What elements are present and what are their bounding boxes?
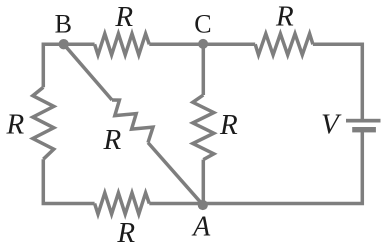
- battery V: long plate (top): [346, 119, 381, 123]
- node A (junction dot): [198, 200, 208, 210]
- node B (junction dot): [59, 39, 69, 49]
- resistor R (bottom branch): [95, 193, 150, 214]
- battery V: short thick plate (bottom): [352, 127, 376, 132]
- svg-text:R: R: [219, 109, 238, 141]
- svg-text:C: C: [194, 10, 211, 39]
- resistor R (left branch): [33, 87, 54, 159]
- svg-text:B: B: [55, 10, 72, 39]
- resistor R (diagonal branch, B to A): [112, 100, 153, 143]
- resistor R (top-left, between B and C): [95, 34, 150, 55]
- wire: bottom rail from node A to bottom-right corner, up to battery: [203, 131, 362, 204]
- svg-text:V: V: [321, 108, 342, 140]
- wire: top-right corner down to battery top plate: [313, 44, 362, 119]
- wire: node C to top-right resistor: [203, 43, 255, 47]
- wire: bottom rail from resistor to node A: [149, 202, 203, 206]
- svg-text:R: R: [116, 217, 135, 245]
- wire: diagonal lower lead into node A: [148, 143, 203, 205]
- wire: middle branch upper lead (C down): [202, 44, 206, 95]
- wire: bottom-left corner (left wire lower lead + bottom rail left part): [43, 159, 94, 203]
- svg-text:A: A: [191, 211, 211, 242]
- svg-text:R: R: [103, 124, 122, 156]
- wire: diagonal upper lead from node B: [64, 44, 112, 100]
- wire: top-left corner (top rail left part + left wire upper lead): [43, 44, 94, 87]
- svg-text:R: R: [6, 109, 25, 141]
- wire: top rail resistor R1 to node C: [149, 43, 203, 47]
- wire: middle branch lower lead to node A: [202, 160, 206, 205]
- svg-text:R: R: [275, 1, 294, 33]
- resistor R (middle branch, C to A): [193, 95, 214, 160]
- node C (junction dot): [198, 39, 208, 49]
- resistor R (top-right, between C and battery): [255, 34, 313, 55]
- svg-text:R: R: [114, 1, 133, 33]
